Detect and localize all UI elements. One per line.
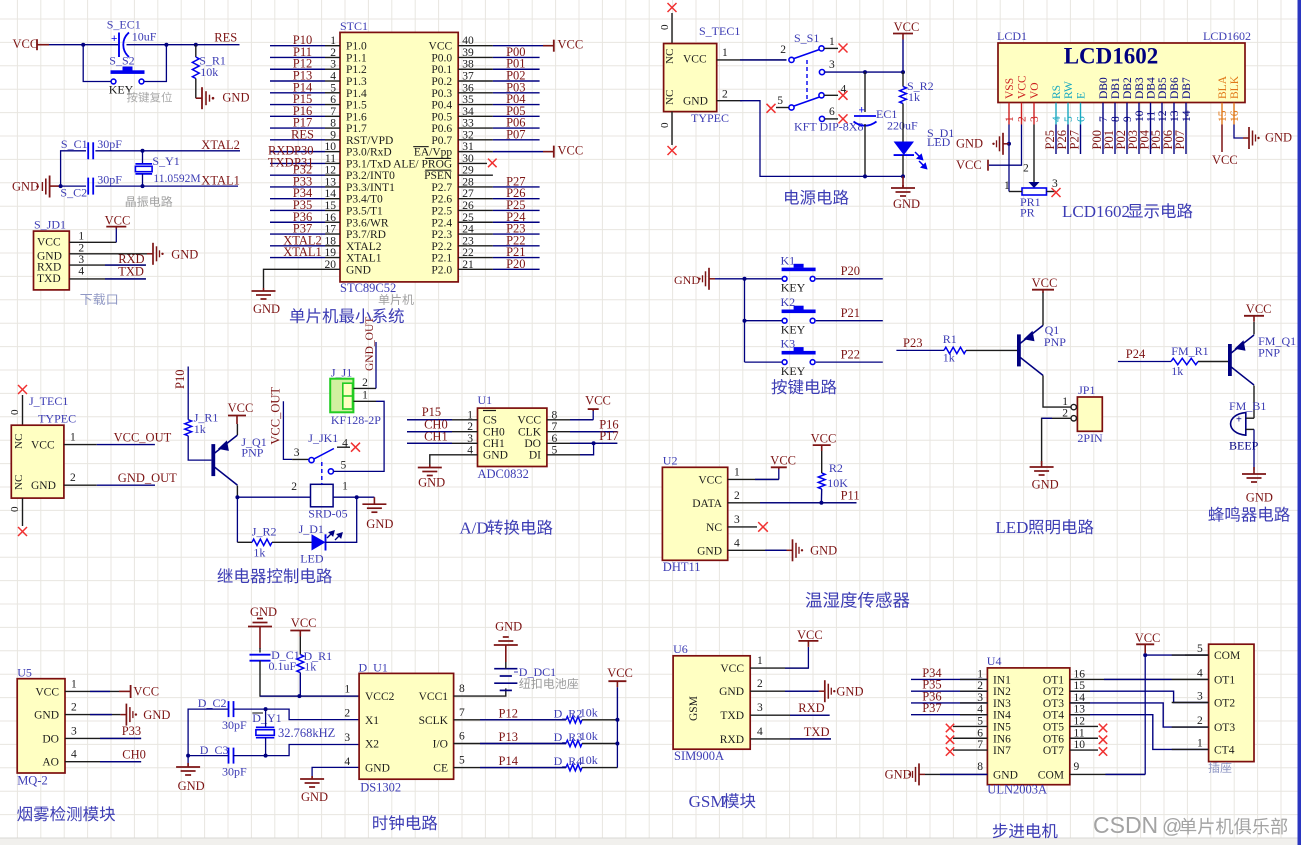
pin 1 stub [1008, 103, 1010, 125]
svg-text:VCC: VCC [1032, 276, 1058, 290]
wire D_C1 down to junction [260, 661, 365, 696]
pin 15 wire to socket OT2 [1070, 691, 1209, 702]
svg-text:P1.4: P1.4 [346, 88, 367, 100]
transistor Q1 PNP [1017, 334, 1021, 366]
pin wire P13 [454, 743, 566, 745]
svg-text:GND: GND [253, 302, 280, 316]
pin 16 wire to GND [1234, 125, 1243, 139]
svg-text:SRD-05: SRD-05 [308, 507, 347, 521]
svg-text:DO: DO [42, 733, 59, 745]
svg-text:11: 11 [1074, 727, 1085, 739]
relay pin 1 to GND [333, 496, 374, 498]
svg-text:GND: GND [885, 767, 912, 781]
svg-text:OT4: OT4 [1043, 710, 1064, 722]
socket U3 body [1209, 644, 1254, 761]
svg-text:6: 6 [977, 727, 983, 739]
svg-text:P0.7: P0.7 [431, 135, 452, 147]
svg-text:P2.7: P2.7 [431, 182, 452, 194]
overline PROG [425, 157, 451, 159]
svg-text:K3: K3 [781, 337, 796, 351]
caption 烟雾检测模块 [17, 806, 115, 821]
svg-text:J_D1: J_D1 [299, 522, 324, 536]
svg-text:VCC_OUT: VCC_OUT [269, 387, 283, 445]
svg-text:P0.4: P0.4 [431, 100, 452, 112]
svg-text:1: 1 [342, 481, 348, 493]
pin 10 wire [325, 151, 340, 153]
svg-text:1: 1 [344, 684, 350, 696]
svg-text:RS: RS [1051, 85, 1063, 99]
svg-text:14: 14 [1181, 110, 1193, 122]
svg-text:DB0: DB0 [1098, 77, 1110, 99]
pin 3 stub [1172, 702, 1209, 704]
pin 36 wire [458, 92, 493, 94]
svg-text:COM: COM [1214, 650, 1240, 662]
svg-text:GND: GND [346, 264, 371, 276]
svg-text:10k: 10k [200, 65, 218, 79]
pin 3 wire RXD [69, 264, 146, 266]
power VCC bar [36, 39, 38, 50]
pin 4 wire [1055, 125, 1057, 155]
svg-text:CSDN: CSDN [1093, 812, 1158, 838]
wire K3 to P22 [816, 361, 883, 363]
svg-text:10k: 10k [580, 729, 598, 743]
battery D_DC1 [494, 668, 517, 670]
svg-text:LED: LED [300, 552, 324, 566]
svg-text:0.1uF: 0.1uF [269, 659, 297, 673]
pin 1 wire to switch [717, 59, 787, 61]
pin 12 stub [1161, 103, 1163, 125]
svg-text:PNP: PNP [1044, 335, 1066, 349]
caption 步进电机 [993, 823, 1058, 838]
ground GND (battery) [503, 636, 509, 638]
svg-text:2: 2 [977, 680, 983, 692]
wire left leg of S_S2 [83, 45, 110, 82]
pin 11 stub [1150, 103, 1152, 125]
svg-text:U1: U1 [478, 393, 493, 407]
pin 17 wire [325, 233, 340, 235]
wire S_C1 to XTAL2 [95, 150, 240, 152]
connector S_JD1 [34, 231, 70, 290]
svg-text:2: 2 [1017, 116, 1029, 122]
svg-text:VCC: VCC [558, 144, 584, 158]
svg-text:SIM900A: SIM900A [674, 749, 724, 763]
svg-text:P13: P13 [499, 730, 518, 744]
svg-text:GND: GND [12, 179, 39, 193]
svg-text:5: 5 [777, 95, 783, 107]
svg-text:NC: NC [706, 522, 722, 534]
wire right leg of S_S2 [145, 45, 167, 82]
pin 2 wire to rail [717, 100, 742, 102]
svg-text:RXD: RXD [798, 701, 824, 715]
svg-text:1k: 1k [908, 90, 920, 104]
svg-text:S_TEC1: S_TEC1 [699, 24, 740, 38]
resistor J_R1 [185, 420, 192, 436]
connector JP1 body [1077, 397, 1102, 431]
svg-text:RES: RES [291, 127, 314, 141]
svg-text:VCC1: VCC1 [419, 691, 449, 703]
svg-text:P3.3/INT1: P3.3/INT1 [346, 182, 395, 194]
svg-text:P17: P17 [599, 429, 618, 443]
svg-text:1k: 1k [253, 546, 265, 560]
pin 11 wire [325, 162, 340, 164]
capacitor EC1 (polarized) [854, 115, 876, 117]
svg-text:GND_OUT: GND_OUT [118, 471, 177, 485]
wire J_R2 to LED J_D1 [272, 541, 312, 543]
svg-text:OT3: OT3 [1043, 698, 1064, 710]
svg-text:P1.7: P1.7 [346, 123, 367, 135]
svg-text:10K: 10K [827, 476, 848, 490]
svg-text:8: 8 [459, 683, 465, 695]
pot pin 1 lead [1008, 144, 1010, 192]
wire JK1 pin5 to KF128 pin1 [334, 401, 385, 471]
svg-text:XTAL2: XTAL2 [201, 138, 240, 152]
svg-text:VCC: VCC [558, 38, 584, 52]
wire D_C3 right to X2 [234, 755, 266, 757]
svg-text:13: 13 [1169, 110, 1181, 122]
svg-text:VCC: VCC [683, 54, 707, 66]
pin 33 wire [458, 127, 493, 129]
svg-text:OT1: OT1 [1214, 674, 1235, 686]
svg-text:P27: P27 [1068, 130, 1082, 149]
pin 2 stub [1172, 726, 1209, 728]
pin 16 wire to socket OT1 [1070, 678, 1209, 680]
capacitor S_EC1 [118, 33, 120, 58]
overline PSEN [425, 169, 451, 171]
pin 7 wire [325, 115, 340, 117]
svg-text:LED: LED [995, 518, 1028, 537]
svg-text:VCC: VCC [698, 474, 722, 486]
caption 纽扣电池座 [519, 678, 578, 689]
svg-text:D_R2: D_R2 [554, 706, 583, 720]
no-connect X (DHT11 pin3) [758, 522, 768, 532]
no-connect X (pin30) [488, 159, 497, 168]
pin 14 wire [1185, 125, 1187, 155]
wire J_R1 to J_Q1 base [188, 436, 211, 460]
pin 13 wire to socket CT4 [1070, 715, 1209, 750]
wire bus to K1 [745, 278, 782, 280]
svg-text:GND: GND [1265, 131, 1292, 145]
X mark pin 5 [767, 104, 776, 113]
pin 8 wire GND [925, 773, 987, 775]
pin 13 wire [325, 186, 340, 188]
svg-text:J_JK1: J_JK1 [308, 431, 338, 445]
IC MQ-2 body [17, 679, 65, 773]
ground GND (LCD right) [1243, 137, 1249, 139]
svg-text:GSM: GSM [688, 696, 700, 721]
JK1 pin 5 [328, 469, 333, 474]
svg-text:3: 3 [829, 59, 835, 71]
svg-text:P2.6: P2.6 [431, 194, 452, 206]
svg-text:TXD: TXD [118, 265, 144, 279]
svg-text:DB2: DB2 [1122, 77, 1134, 99]
svg-text:I/O: I/O [433, 739, 448, 751]
svg-text:P2.1: P2.1 [431, 253, 452, 265]
IC DS1302 body [359, 673, 454, 779]
pin 8 wire [1114, 125, 1116, 155]
svg-text:GND: GND [993, 769, 1018, 781]
svg-text:VCC: VCC [1135, 631, 1161, 645]
connector S_TEC1 body [664, 44, 717, 112]
pin 15 wire [325, 209, 340, 211]
pin 1 wire to VCC [65, 690, 119, 692]
svg-text:P1.3: P1.3 [346, 76, 367, 88]
svg-text:8: 8 [977, 761, 983, 773]
pin 5 wire DI [547, 454, 594, 456]
svg-text:P22: P22 [841, 347, 860, 361]
wire cap to junction right [127, 44, 167, 46]
svg-text:P07: P07 [1173, 130, 1187, 149]
node crystal top [141, 149, 145, 153]
svg-text:VCC: VCC [770, 454, 796, 468]
svg-text:TYPEC: TYPEC [691, 111, 729, 125]
IC DHT11 body [662, 467, 727, 560]
pin 7 stub [953, 749, 987, 751]
svg-text:15: 15 [1217, 110, 1229, 122]
svg-text:DO: DO [524, 438, 541, 450]
svg-text:P12: P12 [499, 706, 518, 720]
svg-text:VCC: VCC [291, 616, 317, 630]
pin 1 stub and X [824, 47, 838, 49]
LED J_D1 [312, 534, 326, 550]
svg-text:P0.5: P0.5 [431, 111, 452, 123]
wire junction to RES [166, 44, 239, 46]
ground GND (MQ-2) [120, 714, 126, 716]
svg-text:K1: K1 [781, 253, 796, 267]
svg-text:+: + [111, 33, 117, 45]
wire D_C3 left [188, 755, 228, 757]
svg-text:VCC: VCC [956, 158, 982, 172]
svg-text:CS: CS [483, 415, 497, 427]
pin 30 stub [458, 162, 487, 164]
svg-text:3: 3 [1197, 691, 1203, 703]
pin 13 stub [1173, 103, 1175, 125]
ground GND (crystal D) [187, 763, 189, 767]
svg-text:P3.5/T1: P3.5/T1 [346, 205, 383, 217]
pin 5 stub [953, 725, 987, 727]
svg-text:P1.5: P1.5 [346, 100, 367, 112]
svg-text:13: 13 [1074, 704, 1086, 716]
pin 6 wire [325, 104, 340, 106]
overline EA [413, 146, 429, 148]
svg-text:VCC: VCC [31, 440, 55, 452]
IC STC1 STC89C52 body [340, 32, 458, 282]
svg-text:OT3: OT3 [1214, 722, 1235, 734]
svg-text:16: 16 [1074, 668, 1086, 680]
pin 13 wire [1173, 125, 1175, 155]
svg-text:TXD: TXD [804, 725, 830, 739]
svg-text:4: 4 [71, 749, 77, 761]
no-connect X (IN5) [946, 724, 954, 732]
wire VCC to cap S_EC1 [49, 44, 119, 46]
IC ULN2003A body [987, 668, 1069, 785]
svg-text:X1: X1 [365, 715, 379, 727]
svg-text:AO: AO [42, 757, 59, 769]
pin 10 stub X [1070, 749, 1098, 751]
svg-text:DB1: DB1 [1110, 77, 1122, 99]
power VCC (pin40) [553, 40, 555, 52]
no-connect X (S_TEC1 top) [671, 13, 673, 44]
pin 6 wire P17 [547, 442, 617, 444]
svg-text:OT1: OT1 [1043, 674, 1064, 686]
pin wire P12 [454, 719, 566, 721]
pin 8 wire to battery [454, 688, 506, 696]
svg-text:GND: GND [1246, 491, 1273, 505]
svg-text:2: 2 [78, 242, 84, 254]
svg-text:XTAL2: XTAL2 [346, 241, 382, 253]
svg-text:P3.7/RD: P3.7/RD [346, 229, 386, 241]
svg-text:VCC: VCC [894, 20, 920, 34]
pin 16 stub [1233, 103, 1235, 125]
pin 4 wire P37 [911, 714, 987, 716]
pin 2 wire DATA [728, 502, 857, 504]
node crystal bottom [141, 184, 145, 188]
svg-text:IN1: IN1 [993, 674, 1011, 686]
svg-text:15: 15 [1074, 680, 1086, 692]
svg-text:DB5: DB5 [1157, 77, 1169, 99]
svg-text:8: 8 [1110, 116, 1122, 122]
svg-text:D_DC1: D_DC1 [519, 665, 556, 679]
node junction left [81, 43, 85, 47]
pin 4 wire TXD [69, 278, 146, 280]
wire KF128 pin2 GND_OUT up [375, 342, 377, 388]
svg-text:3: 3 [344, 732, 350, 744]
connector J_TEC1 body [11, 425, 64, 498]
svg-text:P2.0: P2.0 [431, 264, 452, 276]
pin 6 wire [1080, 125, 1082, 155]
pin 35 wire [458, 104, 493, 106]
pin 4 wire [325, 80, 340, 82]
pin 29 stub [458, 174, 493, 176]
no-connect X (S_TEC1 bottom) [671, 112, 673, 145]
pin 39 wire [458, 56, 493, 58]
svg-text:IN2: IN2 [993, 686, 1011, 698]
pin 12 wire [1161, 125, 1163, 155]
svg-text:GND: GND [366, 517, 393, 531]
svg-text:1: 1 [977, 668, 983, 680]
pin 1 stub [1172, 748, 1209, 750]
svg-text:30pF: 30pF [97, 173, 122, 187]
svg-text:S_Y1: S_Y1 [152, 154, 179, 168]
svg-text:PR: PR [1020, 206, 1035, 220]
svg-text:GND: GND [674, 273, 700, 287]
svg-text:10k: 10k [580, 753, 598, 767]
switch S_S1 pole 2-1 [789, 57, 794, 62]
wire D_R3 to bus [582, 743, 617, 745]
pin 8 stub [1114, 103, 1116, 125]
pin 6 stub [953, 737, 987, 739]
pin 3 wire to potentiometer [1033, 125, 1035, 183]
svg-text:CT4: CT4 [1214, 744, 1235, 756]
svg-text:P0.0: P0.0 [431, 52, 452, 64]
svg-text:S_JD1: S_JD1 [34, 218, 66, 232]
wire JP1 pin2 to GND [1042, 418, 1071, 464]
svg-text:4: 4 [1051, 116, 1063, 122]
wire battery to GND [505, 651, 507, 669]
wire FM_R1 to FM_Q1 base [1198, 361, 1228, 363]
pin 28 wire [458, 186, 493, 188]
svg-text:2: 2 [291, 481, 297, 493]
svg-text:LCD1: LCD1 [997, 29, 1027, 43]
key bus vertical [744, 279, 746, 362]
svg-text:OT5: OT5 [1043, 721, 1064, 733]
svg-text:P07: P07 [506, 127, 525, 141]
crystal S_Y1 [142, 151, 144, 164]
svg-text:6: 6 [459, 731, 465, 743]
svg-text:1: 1 [71, 678, 77, 690]
JP1 pin 1 [1071, 404, 1076, 409]
svg-text:S_S1: S_S1 [794, 31, 819, 45]
svg-text:P0.3: P0.3 [431, 88, 452, 100]
svg-text:VCC: VCC [1017, 75, 1029, 99]
svg-text:4: 4 [734, 537, 740, 549]
pin 1 wire P34 [911, 678, 987, 680]
svg-text:BLA: BLA [1217, 75, 1229, 99]
no-connect X (J_TEC1 bottom) [22, 498, 24, 526]
svg-text:7: 7 [459, 707, 465, 719]
svg-text:1k: 1k [1171, 364, 1183, 378]
svg-text:4: 4 [344, 756, 350, 768]
svg-text:5: 5 [977, 715, 983, 727]
IC LCD1602 body [998, 43, 1245, 103]
power VCC (ADC) [592, 411, 594, 420]
svg-text:TXD: TXD [268, 155, 294, 169]
svg-text:VCC: VCC [105, 214, 131, 228]
svg-text:P0.6: P0.6 [431, 123, 452, 135]
buzzer leads [1246, 417, 1254, 419]
transistor J_Q1 PNP [211, 444, 215, 476]
svg-text:2: 2 [362, 377, 368, 389]
switch K2 (KEY) [782, 310, 816, 314]
svg-text:P1.1: P1.1 [346, 52, 367, 64]
svg-text:J_J1: J_J1 [331, 366, 352, 380]
pin 7 stub [1102, 103, 1104, 125]
pin 2 stub [1021, 103, 1023, 125]
svg-text:BLK: BLK [1229, 75, 1241, 99]
resistor R1 [944, 347, 966, 353]
svg-text:2: 2 [70, 472, 76, 484]
svg-text:VCC: VCC [228, 401, 254, 415]
wire J_Q1 collector to VCC [236, 424, 238, 435]
capacitor S_C2 [87, 178, 89, 195]
switch pole 5-4 [789, 105, 794, 110]
pin 26 wire [458, 209, 493, 211]
svg-text:P24: P24 [1126, 347, 1146, 361]
svg-text:16: 16 [1229, 110, 1241, 122]
svg-text:GND_OUT: GND_OUT [364, 317, 376, 371]
pin 9 stub [1126, 103, 1128, 125]
capacitor D_C3 [228, 748, 230, 764]
capacitor D_C2 [228, 701, 230, 717]
pin 7 wire [1102, 125, 1104, 155]
svg-text:VCC: VCC [133, 685, 159, 699]
svg-text:TXD: TXD [37, 273, 61, 285]
svg-text:NC: NC [13, 434, 25, 449]
svg-text:2: 2 [71, 702, 77, 714]
svg-text:1: 1 [1004, 116, 1016, 122]
svg-text:GND: GND [34, 710, 59, 722]
svg-text:2: 2 [344, 708, 350, 720]
svg-text:VCC_OUT: VCC_OUT [114, 431, 172, 445]
svg-text:R1: R1 [943, 332, 957, 346]
resistor D_R1 [297, 655, 304, 673]
svg-text:9: 9 [1074, 761, 1080, 773]
svg-text:VCC: VCC [607, 666, 633, 680]
wire S_C2 to XTAL1 [95, 185, 238, 187]
svg-text:PSEN: PSEN [424, 170, 453, 182]
no-connect X (J_TEC1 top) [18, 385, 27, 394]
svg-text:P33: P33 [122, 724, 141, 738]
pin 4 stub [1055, 103, 1057, 125]
